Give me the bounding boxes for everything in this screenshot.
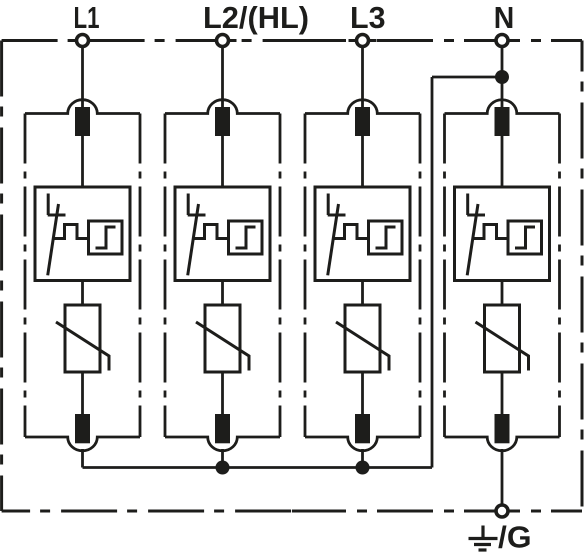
svg-text:L1: L1: [74, 1, 100, 35]
wire L2 terminal to disconnect: [221, 44, 224, 110]
wire L2 cell to bus: [221, 449, 224, 468]
junction dot L2 on bus: [216, 461, 230, 475]
wire L1 disconnect to switch box: [81, 136, 84, 187]
wire N switch box to varistor: [501, 281, 504, 306]
wire L2 varistor to bottom disconnect: [221, 372, 224, 415]
terminal ground/G: [496, 505, 508, 517]
disconnector-monitoring unit L3: [315, 187, 410, 281]
wire L2 switch box to varistor: [221, 281, 224, 306]
wire L3 terminal to disconnect: [361, 44, 364, 110]
wire L1 cell to bottom bus: [81, 449, 84, 468]
ground symbol: [469, 526, 498, 551]
disconnector-monitoring unit N: [455, 187, 550, 281]
disconnector-monitoring unit L2: [175, 187, 270, 281]
protection module cell L3 (dash-dot enclosure): [305, 100, 420, 451]
wire N disconnect to switch box: [501, 136, 504, 187]
wire L3 switch box to varistor: [361, 281, 364, 306]
thermal disconnect (top) L3: [355, 107, 370, 136]
bottom common bus wire: [83, 466, 433, 469]
wire L3 varistor to bottom disconnect: [361, 372, 364, 415]
junction dot on N conductor: [495, 70, 509, 84]
protection module cell N (dash-dot enclosure): [445, 100, 560, 451]
wire L1 switch box to varistor: [81, 281, 84, 306]
varistor L3: [336, 305, 389, 372]
varistor N: [476, 305, 529, 372]
wire L3 disconnect to switch box: [361, 136, 364, 187]
thermal disconnect (bottom) L2: [215, 414, 230, 443]
junction dot L3 on bus: [356, 461, 370, 475]
thermal disconnect (bottom) L3: [355, 414, 370, 443]
wire N-PE feed (vertical): [431, 77, 434, 468]
varistor L1: [56, 305, 109, 372]
disconnector-monitoring unit L1: [35, 187, 130, 281]
svg-text:L2/(HL): L2/(HL): [203, 1, 309, 35]
wire N terminal to disconnect: [501, 44, 504, 110]
svg-text:N: N: [494, 1, 515, 35]
wire N-PE feed (horizontal): [432, 76, 502, 79]
terminal L2: [217, 35, 229, 47]
protection module cell L1 (dash-dot enclosure): [25, 100, 140, 451]
wire L1 varistor to bottom disconnect: [81, 372, 84, 415]
terminal L3: [357, 35, 369, 47]
terminal N: [496, 35, 508, 47]
wire L3 cell to bus: [361, 449, 364, 468]
thermal disconnect (top) L2: [215, 107, 230, 136]
border stubs at terminals: [69, 41, 517, 512]
thermal disconnect (top) N: [495, 107, 510, 136]
wire N cell to ground terminal: [501, 449, 504, 505]
terminal L1: [77, 35, 89, 47]
wire L2 disconnect to switch box: [221, 136, 224, 187]
thermal disconnect (top) L1: [75, 107, 90, 136]
wire L1 terminal to disconnect: [81, 44, 84, 110]
svg-text:L3: L3: [350, 1, 386, 35]
varistor L2: [196, 305, 249, 372]
wire N varistor to bottom disconnect: [501, 372, 504, 415]
svg-text:/G: /G: [498, 521, 532, 555]
protection module cell L2 (dash-dot enclosure): [165, 100, 280, 451]
thermal disconnect (bottom) L1: [75, 414, 90, 443]
thermal disconnect (bottom) N: [495, 414, 510, 443]
